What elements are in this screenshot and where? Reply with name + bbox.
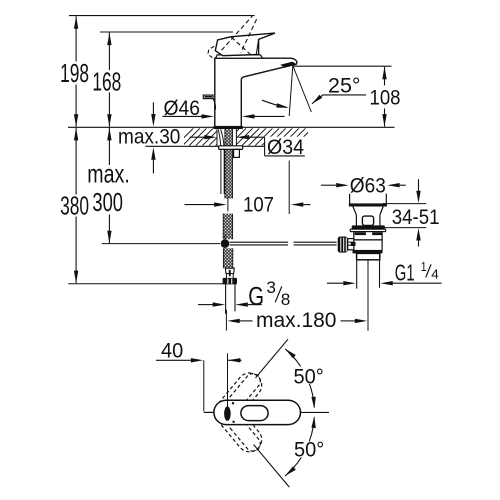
supply end extension line (380 ref) <box>68 283 226 285</box>
tailpipe centerline / max.180 right extension <box>367 260 369 331</box>
spout outlet extension line (108 ref) <box>293 65 392 67</box>
drain lower body <box>353 240 382 251</box>
counter hole left edge <box>216 129 218 146</box>
hose break tick (107 ref) <box>227 197 229 212</box>
svg-text:40: 40 <box>161 339 183 363</box>
faucet base on counter (thick line) <box>214 126 243 129</box>
dimension O46 leader and arrows <box>163 115 203 117</box>
second supply hose bending (curved) <box>218 129 221 194</box>
rod pivot detail <box>351 242 356 246</box>
40 extension into capsule <box>227 401 229 407</box>
svg-text:25°: 25° <box>328 74 360 98</box>
svg-text:Ø46: Ø46 <box>164 97 200 120</box>
svg-text:max.30: max.30 <box>118 126 180 149</box>
dimension max.180 <box>227 319 240 323</box>
dimension 34-51 extension lines <box>383 203 427 205</box>
dimension 198 line and arrows <box>75 16 77 61</box>
dimension 34-51 line and arrows <box>418 179 420 191</box>
label O63 <box>349 177 387 194</box>
svg-text:107: 107 <box>243 194 274 217</box>
mounting nut <box>234 149 240 157</box>
braided supply hose segment 3 <box>223 248 232 268</box>
drain flange seat <box>350 229 385 231</box>
dimension G3/8 arrows <box>198 304 213 306</box>
dimension 380 line and arrows <box>75 128 77 195</box>
pop-up rod knob at rear of faucet <box>203 95 213 99</box>
svg-text:50°: 50° <box>294 365 324 389</box>
water stream line at 25 deg <box>293 66 312 113</box>
50deg arc upper with arrowheads <box>285 349 314 407</box>
svg-text:198: 198 <box>60 58 89 87</box>
pop-up horizontal rod <box>230 241 288 243</box>
supply nipple pipe <box>225 284 227 314</box>
G3/8 connector nut (black) <box>223 278 237 285</box>
dimension max.300 line and arrows <box>108 128 110 165</box>
counter hole right edge <box>235 129 237 146</box>
swing axis line +50deg <box>256 339 289 378</box>
dimension 168 line and arrows <box>108 33 110 70</box>
107 right extension line (spout tip) <box>288 161 290 214</box>
drain body bottom band (thick) <box>353 250 383 253</box>
svg-text:3: 3 <box>266 278 276 297</box>
svg-text:G: G <box>248 281 264 310</box>
svg-text:max.180: max.180 <box>256 309 336 332</box>
25 deg arc with arrowhead <box>262 100 287 107</box>
drain neck <box>355 215 357 226</box>
centerline right (top view) <box>301 411 330 413</box>
handle swing outline -50deg (dashed) <box>215 401 261 452</box>
drain upper body with overflow slots <box>354 232 382 240</box>
tailpipe <box>356 260 358 289</box>
drain shoulder (thick) <box>349 203 387 206</box>
dimension 108 line and arrows <box>384 67 386 86</box>
mounting washer under counter <box>219 146 243 150</box>
pop-up rod knurled knob <box>338 237 348 253</box>
dimension O63 arrows <box>321 184 336 186</box>
svg-text:G1: G1 <box>395 260 415 286</box>
dimension 107 spout reach <box>185 204 215 206</box>
lever handle (closed position) <box>215 33 275 56</box>
aerator at spout tip <box>281 62 296 67</box>
braided supply hose segment 1 <box>225 129 233 198</box>
handle slot (top view) <box>241 406 268 421</box>
swing axis line -50deg <box>254 445 290 488</box>
50deg arc lower with arrowheads <box>285 418 314 476</box>
label 50deg lower <box>293 442 326 458</box>
drain flange (black) <box>352 225 385 229</box>
svg-text:4: 4 <box>431 267 439 282</box>
drain pop-up waste top cylinder <box>349 178 351 203</box>
40 left extension line <box>203 360 205 411</box>
svg-text:34-51: 34-51 <box>392 206 440 229</box>
max.180 left extension tick <box>225 310 227 331</box>
svg-text:max.: max. <box>87 159 129 188</box>
tailpipe compression nut <box>357 253 380 259</box>
svg-text:300: 300 <box>92 188 123 217</box>
svg-text:108: 108 <box>370 86 401 109</box>
drain taper <box>353 207 357 215</box>
drain stem tab <box>362 216 373 225</box>
escutcheon cap under lever <box>216 55 263 58</box>
counter top reference line <box>68 126 395 128</box>
knob to body connector <box>348 239 354 250</box>
dimension max.30 arrows <box>152 102 154 114</box>
svg-text:Ø34: Ø34 <box>267 137 304 160</box>
fixing dots <box>232 402 234 404</box>
svg-text:168: 168 <box>92 67 121 96</box>
svg-text:1: 1 <box>421 260 427 274</box>
25 deg leader line with arrowhead <box>312 95 322 104</box>
handle swing outline +50deg (dashed) <box>215 373 261 424</box>
40 right extension line (hole axis) <box>227 353 229 407</box>
counter cross-section hatching <box>176 128 325 145</box>
lever handle open position (dashed) <box>222 16 253 50</box>
dimension O34 arrows at counter hole <box>190 136 205 138</box>
faucet base outline (top view) <box>214 400 301 424</box>
extension line: top of closed lever (168 ref) <box>100 31 233 33</box>
spout axis line (vertical ray) <box>289 66 293 117</box>
label O34 with leader box <box>264 137 266 156</box>
label 50deg upper <box>293 367 326 385</box>
svg-text:Ø63: Ø63 <box>350 175 386 198</box>
faucet body outline <box>215 58 297 126</box>
counter bottom reference line <box>145 145 264 147</box>
svg-text:50°: 50° <box>294 438 324 462</box>
braided supply hose segment 2 <box>223 214 232 240</box>
pop-up rod extension line (max.300 ref) <box>102 243 220 245</box>
mounting hole (top view) <box>224 406 231 420</box>
hose end fitting <box>225 268 234 273</box>
svg-text:8: 8 <box>281 290 291 309</box>
dimension G1 1/4 arrows <box>327 282 343 284</box>
extension line: top of open handle (198 ref) <box>69 15 255 17</box>
svg-text:380: 380 <box>60 191 89 220</box>
pop-up rod junction dot <box>224 234 226 253</box>
